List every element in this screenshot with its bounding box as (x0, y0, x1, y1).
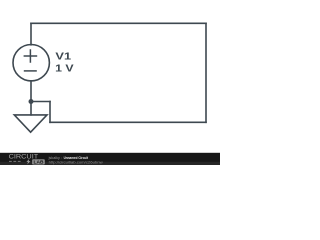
minus sign (24, 70, 37, 72)
watermark bar (0, 153, 220, 165)
junction node (29, 99, 34, 104)
wire node to ground (30, 102, 32, 115)
CircuitLab logo dashes (9, 160, 21, 162)
wire top-left vertical from V1 plus terminal (30, 23, 32, 45)
svg-text:http://circuitlab.com/c26ubnw: http://circuitlab.com/c26ubnw (49, 160, 103, 165)
ground (14, 115, 47, 132)
wire top horizontal (31, 22, 206, 24)
plus sign (24, 49, 38, 63)
svg-text:1 V: 1 V (55, 63, 74, 75)
voltage source V1 (13, 45, 49, 81)
wire bottom horizontal (50, 121, 206, 123)
CircuitLab logo LAB badge (32, 159, 45, 164)
wire jog vertical (49, 102, 51, 123)
wire V1 bottom stub to node (30, 81, 32, 102)
svg-text:V1: V1 (55, 51, 71, 63)
wire right vertical (205, 23, 207, 122)
CircuitLab logo bolt (26, 159, 30, 165)
svg-text:LAB: LAB (34, 160, 44, 165)
wire jog horizontal to node (31, 101, 50, 103)
